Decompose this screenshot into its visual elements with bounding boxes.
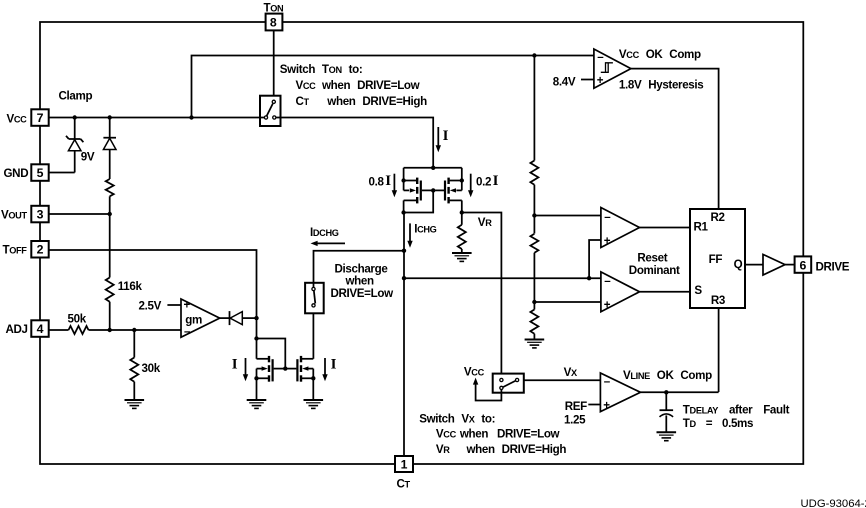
node dot rail feed	[431, 166, 435, 170]
svg-text:I: I	[385, 173, 391, 189]
pin 7 Vcc	[7, 109, 49, 126]
comparator U2 (reset)	[601, 208, 640, 248]
transistor Q1 (mirror input)	[257, 356, 286, 382]
label Switch Ton to block	[280, 63, 427, 108]
svg-text:I: I	[493, 173, 499, 189]
svg-text:DRIVE=Low: DRIVE=Low	[331, 287, 395, 300]
node dot Q3 gate-drain tie	[431, 188, 435, 192]
clamp diode D2	[103, 118, 116, 180]
svg-text:1.25: 1.25	[564, 413, 586, 426]
svg-text:CT: CT	[397, 478, 411, 491]
svg-text:CT: CT	[296, 95, 310, 108]
label 2.5V with stub	[139, 300, 182, 313]
wire Q2 drain to discharge switch	[312, 307, 314, 359]
wire gate tie down to Ichg node	[404, 190, 434, 212]
ground Q2	[304, 400, 324, 408]
svg-text:VOUT: VOUT	[1, 209, 27, 222]
node dot Ichg top	[401, 210, 405, 214]
svg-text:REF: REF	[565, 400, 587, 413]
pin 5 GND	[4, 164, 49, 181]
svg-text:Discharge: Discharge	[335, 262, 389, 275]
svg-text:VCC: VCC	[296, 79, 317, 92]
svg-text:Q: Q	[734, 258, 743, 271]
wire zener to GND pin	[49, 172, 75, 174]
svg-text:+: +	[604, 235, 611, 248]
svg-text:8: 8	[270, 16, 277, 30]
current arrow I (Q1)	[232, 357, 248, 382]
svg-text:+: +	[603, 399, 610, 412]
svg-text:I: I	[232, 357, 238, 373]
svg-text:when DRIVE=High: when DRIVE=High	[326, 95, 427, 108]
resistor 50k	[49, 312, 89, 334]
svg-text:VR: VR	[436, 443, 450, 456]
wire gate tap to gates	[257, 339, 286, 367]
pin 3 Vout	[1, 206, 49, 223]
svg-text:VCC: VCC	[464, 366, 485, 379]
ground 30k	[125, 400, 145, 408]
wire Vcc rail left	[49, 117, 264, 119]
current arrow I (charge current)	[436, 127, 449, 152]
svg-text:when DRIVE=High: when DRIVE=High	[466, 443, 567, 456]
svg-text:VCC: VCC	[7, 113, 28, 126]
wire buffer to pin 6	[785, 264, 794, 266]
label Switch Vx to block	[419, 413, 566, 457]
resistor divider lower	[530, 302, 538, 340]
node dot divider top	[532, 53, 536, 57]
wire ADJ line	[89, 329, 182, 331]
resistor divider upper	[530, 56, 538, 216]
current arrow I (Q2)	[322, 357, 336, 382]
node dot ADJ/116k	[108, 328, 112, 332]
svg-text:TD = 0.5ms: TD = 0.5ms	[683, 417, 753, 430]
svg-text:VCC OK Comp: VCC OK Comp	[619, 48, 701, 61]
svg-text:UDG-93064-2: UDG-93064-2	[801, 498, 866, 508]
node dot Vcc/comp branch	[189, 115, 193, 119]
wire Vout pin to node	[49, 213, 110, 215]
svg-text:DRIVE: DRIVE	[816, 260, 850, 273]
label 0.8I with arrow	[369, 173, 398, 197]
svg-text:2: 2	[37, 243, 44, 257]
node dot Vout	[108, 212, 112, 216]
svg-text:Reset: Reset	[637, 252, 667, 265]
wire Vcc rail right of switch	[276, 118, 433, 169]
node dot Vcc/zener	[73, 115, 77, 119]
svg-text:116k: 116k	[118, 280, 143, 293]
node dot Vcc/clamp diode	[108, 115, 112, 119]
Vx switch S3	[493, 374, 524, 393]
wire mirror source rail	[404, 167, 462, 169]
TON switch S1	[260, 96, 281, 126]
resistor 116k	[106, 214, 143, 330]
svg-text:7: 7	[37, 111, 44, 125]
svg-text:–: –	[184, 325, 191, 338]
node dot Q1 source	[254, 376, 258, 380]
svg-text:Switch TON to:: Switch TON to:	[280, 63, 363, 76]
buffer U5 drive	[763, 254, 785, 275]
wire divider tap to U2 minus	[534, 215, 601, 217]
wire U3 output to FF S	[640, 291, 691, 293]
svg-text:when DRIVE=Low: when DRIVE=Low	[459, 428, 561, 441]
wire branch to U2 plus	[589, 240, 601, 278]
wire Vcc option with arrow	[464, 366, 502, 401]
op-amp gm error amplifier	[181, 298, 220, 338]
svg-text:GND: GND	[4, 167, 29, 180]
node dot divider/S comp	[532, 300, 536, 304]
wire divider tap to U3 plus	[534, 301, 601, 303]
ground VR	[452, 253, 472, 261]
wire Toff pin to gm node	[49, 250, 257, 318]
pin 1 CT	[395, 456, 413, 491]
wire U2 output to FF R1	[640, 227, 691, 229]
ground divider	[525, 340, 545, 348]
svg-text:–: –	[597, 50, 604, 63]
transistor Q3 (0.8I)	[401, 168, 433, 213]
svg-text:VLINE OK Comp: VLINE OK Comp	[623, 369, 712, 382]
discharge switch S2	[305, 283, 324, 314]
svg-text:5: 5	[37, 166, 44, 180]
wire FF R3 down	[718, 308, 720, 392]
zener diode 9V	[66, 118, 95, 173]
transistor Q2 (mirror output)	[285, 356, 313, 382]
wire CT sense to comparators	[404, 277, 601, 279]
wire gm node down to Q1 drain	[256, 318, 258, 359]
node dot divider/R1 comp	[532, 213, 536, 217]
svg-text:1: 1	[401, 458, 408, 472]
svg-text:ADJ: ADJ	[6, 323, 28, 336]
resistor clamp (unlabelled)	[106, 179, 114, 196]
svg-text:VCC: VCC	[436, 428, 457, 441]
transistor Q4 (0.2I)	[433, 168, 464, 213]
capacitor delay	[660, 392, 674, 432]
node dot gate junction	[283, 366, 287, 370]
ground Q1	[247, 400, 267, 408]
label Idchg with arrow	[310, 226, 345, 246]
label 8.4V with stub	[553, 75, 594, 88]
svg-text:4: 4	[37, 322, 44, 336]
svg-text:TOFF: TOFF	[3, 243, 28, 256]
svg-text:Clamp: Clamp	[59, 90, 93, 103]
svg-text:Switch VX to:: Switch VX to:	[419, 413, 495, 426]
svg-text:R1: R1	[694, 220, 709, 233]
pin 4 ADJ	[6, 320, 49, 337]
node dot delay cap	[664, 390, 668, 394]
node dot Q2 source	[311, 376, 315, 380]
svg-text:S: S	[694, 284, 702, 297]
label 0.2I with arrow	[468, 173, 499, 197]
comparator U3 (set)	[601, 272, 640, 312]
svg-text:2.5V: 2.5V	[139, 300, 162, 313]
wire pin8 to TON switch	[273, 31, 275, 101]
label Ichg with arrow	[407, 223, 436, 248]
svg-text:when DRIVE=Low: when DRIVE=Low	[321, 79, 421, 92]
node dot VR top	[460, 210, 464, 214]
ground delay cap	[657, 432, 677, 440]
wire Vcc to VccOK comparator	[192, 56, 594, 118]
svg-text:50k: 50k	[68, 312, 87, 325]
pin 2 Toff	[3, 241, 49, 258]
node dot CT/Toff-Ichg	[402, 249, 406, 253]
resistor divider middle	[530, 216, 538, 303]
svg-text:–: –	[604, 375, 611, 388]
svg-text:TDELAY after Fault: TDELAY after Fault	[683, 403, 790, 416]
svg-text:R3: R3	[711, 294, 726, 307]
pin 6 DRIVE	[795, 256, 850, 273]
wire FF Q to buffer	[745, 264, 763, 266]
wire resistor to Vout node	[109, 196, 111, 214]
wire U1 output to FF R2	[631, 69, 719, 209]
svg-text:R2: R2	[711, 211, 725, 224]
pin 8 TON	[264, 1, 285, 30]
svg-text:VR: VR	[478, 216, 492, 229]
node dot gm/Toff/CT mirror	[254, 316, 258, 320]
diode D3 at gm output	[220, 311, 257, 325]
svg-text:1.8V Hysteresis: 1.8V Hysteresis	[619, 78, 703, 91]
svg-text:Dominant: Dominant	[629, 264, 680, 277]
svg-text:I: I	[331, 357, 337, 373]
resistor VR to ground	[458, 213, 466, 254]
node dot S-comp minus branch	[587, 276, 591, 280]
svg-text:+: +	[184, 298, 191, 311]
wire U4 output to FF R3	[641, 391, 719, 393]
svg-text:VX: VX	[564, 366, 578, 379]
svg-text:+: +	[604, 299, 611, 312]
frame border	[40, 22, 803, 464]
svg-text:FF: FF	[709, 253, 723, 266]
wire discharge switch to Idchg line	[314, 251, 405, 288]
svg-text:3: 3	[37, 208, 44, 222]
wire Q2 source to ground	[312, 378, 314, 400]
label Discharge when DRIVE=Low	[331, 262, 395, 300]
wire Vx to U4 minus	[524, 379, 601, 381]
resistor 30k	[130, 330, 160, 400]
svg-text:I: I	[443, 128, 449, 144]
svg-text:6: 6	[800, 258, 807, 272]
svg-text:TON: TON	[264, 1, 285, 14]
svg-text:9V: 9V	[81, 151, 95, 164]
svg-text:30k: 30k	[142, 362, 161, 375]
wire Q1 source to ground	[256, 378, 258, 400]
svg-text:ICHG: ICHG	[414, 223, 436, 236]
label REF 1.25 with stub	[564, 400, 600, 427]
svg-text:8.4V: 8.4V	[553, 75, 576, 88]
node dot CT/comparator line	[402, 276, 406, 280]
svg-text:when: when	[345, 275, 374, 288]
label Reset Dominant	[629, 252, 680, 277]
node dot gate tap	[254, 336, 258, 340]
node dot ADJ/30k	[132, 328, 136, 332]
flip-flop FF	[690, 209, 745, 308]
svg-text:+: +	[597, 74, 604, 87]
op-amp U1 Vcc OK Comp	[594, 49, 631, 88]
comparator U4 Vline OK	[600, 373, 640, 412]
svg-text:0.2: 0.2	[476, 175, 491, 188]
svg-text:IDCHG: IDCHG	[310, 226, 339, 239]
svg-text:–: –	[604, 274, 611, 287]
svg-text:0.8: 0.8	[369, 175, 385, 188]
wire VR node to Vx feed	[462, 213, 502, 379]
svg-text:–: –	[604, 210, 611, 223]
wire CT vertical	[403, 213, 405, 456]
